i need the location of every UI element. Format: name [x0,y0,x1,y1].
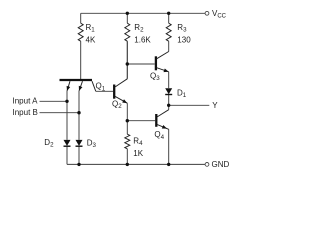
wire Q4 emitter to GND rail [168,129,170,164]
wire node to Q4 base [127,120,155,122]
wire input A lead [40,100,68,102]
diode D1 [165,88,172,94]
junction node GND rail at D3 [77,163,80,166]
wire Q1 collector to Q2 base [96,90,113,92]
svg-text:Q3: Q3 [150,71,160,82]
svg-text:Q2: Q2 [112,99,122,110]
wire Q4 collector to output node [168,105,170,109]
wire R3 bottom to Q3 collector [168,41,170,51]
junction node on rail at R3 [167,12,170,15]
diode D3 [76,140,83,146]
wire Q3 emitter to D1 [168,72,170,88]
svg-text:D2: D2 [44,138,54,149]
wire R1 top [80,13,82,23]
svg-text:130: 130 [177,36,191,45]
wire R2 top [126,13,128,23]
wire emitter1 column to D2 [66,91,68,140]
terminal VCC [205,11,209,15]
svg-text:VCC: VCC [212,9,227,20]
terminal GND [205,163,209,167]
transistor Q2 (phase splitter) [114,79,127,103]
resistor R2 body [125,23,130,41]
wire Q2 collector up to R2 [126,41,128,79]
svg-text:R1: R1 [86,23,96,34]
svg-text:4K: 4K [86,36,96,45]
transistor Q4 (lower output transistor) [156,110,168,130]
wire R2 bottom to Q2 collector / Q3 base node [126,41,128,79]
wire input B lead [40,112,80,114]
junction node GND rail at Q4 [167,163,170,166]
svg-text:Y: Y [212,101,218,110]
junction node on rail at R2 [126,12,129,15]
junction node input A [65,100,68,103]
wire GND rail [67,163,205,165]
wire R4 bottom to GND rail [126,149,128,165]
svg-text:1.6K: 1.6K [134,36,151,45]
svg-text:GND: GND [212,160,230,169]
wire R1 bottom to Q1 base [80,41,82,79]
junction node GND rail at R4 [126,163,129,166]
junction node Q2 emitter / R4 / Q4 base [126,119,129,122]
wire Q3 base from node [127,63,154,65]
transistor Q1 (multi-emitter input transistor) [60,80,96,91]
wire emitter2 column to D3 [78,91,80,140]
wire D3 to GND rail [78,147,80,165]
resistor R4 body [125,134,130,149]
junction node input B [77,111,80,114]
wire output Y [169,104,210,106]
svg-text:D3: D3 [87,138,97,149]
wire Q2 emitter down to node [126,103,128,121]
resistor R3 body [166,23,171,41]
wire top VCC rail [81,12,206,14]
wire node to R4 [126,121,128,135]
junction node output Y below D1 [167,104,170,107]
svg-text:R2: R2 [134,23,144,34]
svg-text:R4: R4 [133,136,143,147]
wire D1 to output node [168,95,170,106]
junction node R2 / Q3 base [126,62,129,65]
svg-text:Input A: Input A [13,96,39,105]
svg-text:Input B: Input B [13,108,38,117]
svg-text:Q4: Q4 [154,130,164,141]
svg-text:Q1: Q1 [96,82,106,93]
wire D2 to GND rail [66,147,68,165]
transistor Q3 (upper output transistor) [156,52,169,73]
svg-text:D1: D1 [177,88,187,99]
svg-text:R3: R3 [177,23,187,34]
resistor R1 body [78,23,83,41]
wire R3 top [168,13,170,23]
diode D2 [64,140,71,146]
svg-text:1K: 1K [133,149,143,158]
